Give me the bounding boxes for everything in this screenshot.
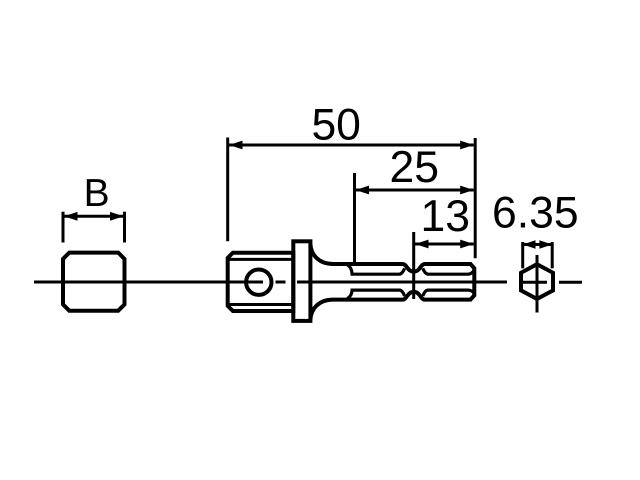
dimension 6.35 arrow left bbox=[523, 240, 536, 248]
dimension 13 extension line left through groove bbox=[412, 232, 415, 299]
socket chamfer line top bbox=[230, 258, 294, 261]
square end view (B drive) bbox=[63, 253, 125, 311]
svg-text:B: B bbox=[84, 172, 110, 215]
dimension 6.35 line bbox=[523, 243, 553, 246]
socket chamfer line bottom bbox=[230, 303, 294, 306]
dimension 25 arrow right bbox=[460, 186, 474, 195]
svg-text:6.35: 6.35 bbox=[492, 188, 579, 237]
dimension B arrow left bbox=[64, 212, 78, 221]
socket pin hole bbox=[246, 270, 271, 295]
hex corner line lower right section bbox=[423, 290, 474, 296]
socket body outline bbox=[228, 253, 294, 311]
dimension 25 extension line left bbox=[353, 173, 356, 263]
shared extension line right bbox=[474, 138, 477, 258]
dimension B arrow right bbox=[110, 212, 124, 221]
centerline hex end view vertical bbox=[536, 255, 539, 313]
hex corner line lower left section bbox=[347, 290, 404, 298]
centerline main horizontal bbox=[34, 281, 507, 284]
dimension 6.35 extension line right bbox=[551, 242, 554, 268]
dimension B extension line left bbox=[62, 212, 65, 243]
dimension 13 arrow left bbox=[415, 240, 429, 249]
dimension 25 line bbox=[356, 189, 474, 192]
dimension 6.35 extension line left bbox=[521, 242, 524, 268]
svg-text:50: 50 bbox=[311, 101, 361, 150]
svg-text:13: 13 bbox=[421, 192, 471, 241]
dimension 50 arrow right bbox=[460, 141, 474, 150]
dimension B line bbox=[64, 215, 124, 218]
dimension 13 line bbox=[415, 243, 474, 246]
dimension 13 arrow right bbox=[460, 240, 474, 249]
dimension 50 line bbox=[229, 144, 474, 147]
flange bbox=[293, 241, 310, 321]
centerline hex end view horizontal dashes bbox=[522, 281, 583, 284]
hex corner line upper right section bbox=[423, 268, 474, 274]
hex end view bbox=[521, 264, 553, 299]
dimension 6.35 arrow right bbox=[539, 240, 552, 248]
dimension 50 extension line left bbox=[226, 138, 229, 242]
dimension 25 arrow left bbox=[356, 186, 370, 195]
shank outline with fillet, groove and tip bbox=[310, 244, 474, 320]
svg-text:25: 25 bbox=[390, 143, 440, 192]
dimension B extension line right bbox=[123, 212, 126, 243]
hex corner line upper left section bbox=[347, 265, 404, 274]
dimension 50 arrow left bbox=[229, 141, 243, 150]
